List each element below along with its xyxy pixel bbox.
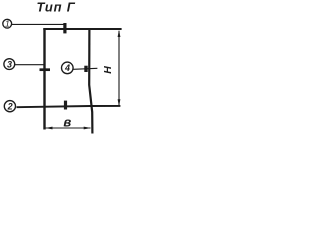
svg-text:1: 1 xyxy=(5,19,10,29)
svg-text:Н: Н xyxy=(102,66,114,74)
svg-text:4: 4 xyxy=(64,63,70,73)
svg-text:3: 3 xyxy=(7,59,12,69)
svg-text:2: 2 xyxy=(7,101,13,111)
svg-text:в: в xyxy=(63,115,71,130)
svg-text:Тип: Тип xyxy=(37,0,63,15)
svg-text:Г: Г xyxy=(67,0,76,15)
